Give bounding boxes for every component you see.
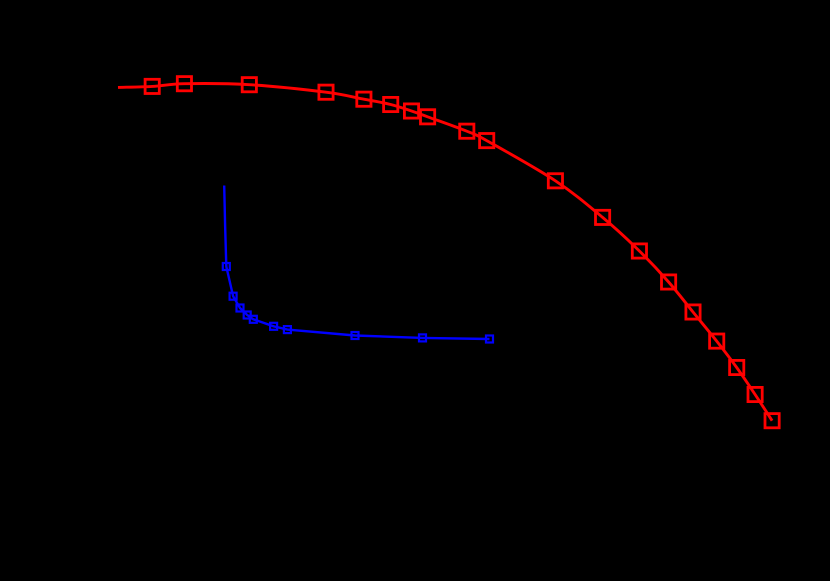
red square markers	[145, 77, 779, 428]
blue square markers	[223, 263, 493, 343]
blue curve line	[224, 186, 489, 340]
red curve line	[118, 84, 772, 421]
